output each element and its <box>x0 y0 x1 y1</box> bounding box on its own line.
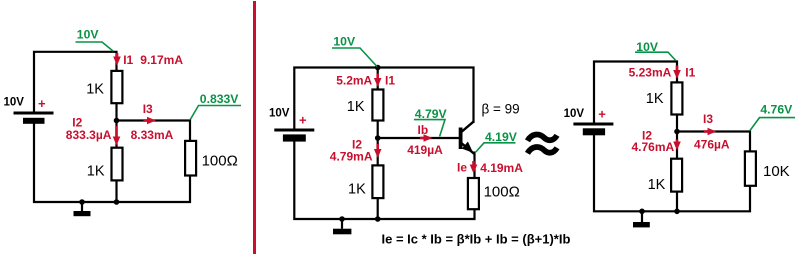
svg-text:4.79mA: 4.79mA <box>330 149 373 163</box>
resistor R3 1K (middle top) <box>372 90 383 121</box>
svg-text:10V: 10V <box>333 35 356 49</box>
svg-text:10V: 10V <box>4 96 25 108</box>
ground symbol (right circuit) <box>633 211 650 227</box>
wire R5 bottom through node C to R6 top <box>676 115 678 158</box>
resistor R6 1K (right bottom) <box>671 159 682 192</box>
wire V3+ top rail to R5 (right circuit) <box>594 62 677 124</box>
node top rail junction dot (middle) <box>375 65 381 71</box>
wire R1 bottom through node A to R2 top <box>115 103 117 148</box>
wire bottom rail RL1 to V1- <box>34 123 190 202</box>
current arrow I2 (right) <box>673 140 681 151</box>
current arrow I3 (left) <box>144 117 157 125</box>
svg-text:I3: I3 <box>703 112 713 126</box>
resistor R4 1K (middle bottom) <box>372 165 383 198</box>
svg-text:8.33mA: 8.33mA <box>131 128 174 142</box>
svg-text:1K: 1K <box>646 91 664 107</box>
svg-text:5.2mA: 5.2mA <box>336 74 372 88</box>
wire emitter to RL2 top <box>473 152 475 178</box>
current arrow I3 (right) <box>704 128 717 136</box>
wire R2 bottom to bottom rail <box>115 181 117 203</box>
svg-text:I1: I1 <box>385 74 395 88</box>
svg-text:1K: 1K <box>347 99 365 115</box>
wire RL3 bottom and bottom rail to V3- <box>594 135 750 211</box>
wire V1+ top rail to R1 (left circuit) <box>34 52 117 113</box>
svg-text:10V: 10V <box>564 108 585 120</box>
svg-text:1K: 1K <box>648 177 666 193</box>
current arrow I2 (left) <box>113 126 121 146</box>
svg-text:476µA: 476µA <box>694 138 730 152</box>
svg-text:I3: I3 <box>143 102 153 116</box>
label I1 9.17mA (left) <box>123 53 183 67</box>
resistor RL3 10K load <box>745 151 756 185</box>
svg-text:1K: 1K <box>87 164 105 180</box>
divider line between example panels <box>253 1 256 254</box>
resistor RL1 100 ohm load <box>185 141 196 176</box>
svg-text:Ie: Ie <box>457 161 467 175</box>
svg-text:1K: 1K <box>86 81 104 97</box>
net label 0.833V output (left, green) <box>190 92 241 120</box>
resistor R1 1K (left top) <box>111 71 122 103</box>
svg-text:10V: 10V <box>269 108 290 120</box>
svg-text:0.833V: 0.833V <box>200 92 239 106</box>
svg-text:+: + <box>299 112 307 127</box>
svg-text:10V: 10V <box>77 28 100 42</box>
resistor RL2 100 ohm emitter load <box>468 178 479 209</box>
svg-text:10K: 10K <box>763 163 790 180</box>
node R4 bottom junction dot <box>375 216 381 222</box>
svg-text:9.17mA: 9.17mA <box>140 53 183 67</box>
svg-text:Ib: Ib <box>418 123 429 137</box>
ground symbol (middle circuit) <box>333 219 351 234</box>
svg-text:1K: 1K <box>348 182 366 198</box>
svg-text:I1: I1 <box>123 53 133 67</box>
net label 10V supply (left, green) <box>76 28 114 51</box>
wire V2+ top rail to collector (middle circuit) <box>294 68 473 131</box>
current arrow Ie (middle emitter) <box>470 161 478 174</box>
svg-text:419µA: 419µA <box>407 143 443 157</box>
approx equal symbol between circuits <box>528 134 558 153</box>
svg-text:4.76mA: 4.76mA <box>632 140 675 154</box>
node ground junction dot (right) <box>639 209 645 215</box>
node R6 bottom junction dot <box>674 209 680 215</box>
wire R4 bottom to bottom rail <box>377 199 379 220</box>
svg-text:+: + <box>598 107 606 122</box>
resistor R2 1K (left bottom) <box>112 148 123 181</box>
svg-text:100Ω: 100Ω <box>484 184 520 201</box>
wire R6 bottom to bottom rail <box>676 192 678 211</box>
wire RL2 bottom and bottom rail to V2- <box>294 141 474 219</box>
svg-text:β = 99: β = 99 <box>482 101 520 116</box>
battery V2 plates <box>274 130 314 142</box>
current arrow I1 (right) <box>673 66 681 80</box>
net label 10V supply (right, green) <box>635 40 676 60</box>
current arrow I2 (middle) <box>374 144 382 158</box>
svg-text:+: + <box>38 96 46 111</box>
node ground junction dot (left) <box>79 199 85 205</box>
current arrow I1 (left) <box>113 53 121 66</box>
svg-text:I1: I1 <box>685 65 695 79</box>
wire top rail node to R3 top <box>377 68 379 90</box>
net label 4.76V output (right, green) <box>750 102 795 130</box>
wire node C to RL3 (mid rail) <box>677 132 750 152</box>
svg-text:4.76V: 4.76V <box>760 102 793 116</box>
svg-text:4.19mA: 4.19mA <box>480 161 523 175</box>
svg-text:5.23mA: 5.23mA <box>629 65 672 79</box>
net label 4.79V base (middle, green) <box>414 107 448 136</box>
node A junction dot (R1/R2/RL1) <box>114 118 120 124</box>
svg-text:Ie = Ic * Ib = β*Ib + Ib = (β+: Ie = Ic * Ib = β*Ib + Ib = (β+1)*Ib <box>382 232 571 247</box>
net label 4.19V emitter (middle, green) <box>476 130 518 152</box>
node C junction dot (right divider) <box>674 129 680 135</box>
battery V1 plates <box>14 113 54 124</box>
wire R3 bottom through node B to R4 top <box>377 121 379 165</box>
battery V3 plates <box>573 124 613 135</box>
svg-text:4.19V: 4.19V <box>485 130 518 144</box>
current arrow Ib (middle base) <box>420 134 433 142</box>
node ground junction dot (middle) <box>339 216 345 222</box>
ground symbol (left circuit) <box>74 202 91 216</box>
svg-text:833.3µA: 833.3µA <box>66 128 112 142</box>
resistor R5 1K (right top) <box>671 82 682 114</box>
net label 10V supply (middle, green) <box>332 35 377 67</box>
wire base node B to Q1 base <box>378 137 460 139</box>
node B junction dot (base divider) <box>375 135 381 141</box>
node RL1 bottom junction dot <box>114 199 120 205</box>
svg-text:100Ω: 100Ω <box>202 153 238 170</box>
wire node A to RL1 (mid rail) <box>117 121 191 141</box>
current arrow I1 (middle) <box>374 74 382 88</box>
transistor Q1 NPN <box>459 122 475 154</box>
